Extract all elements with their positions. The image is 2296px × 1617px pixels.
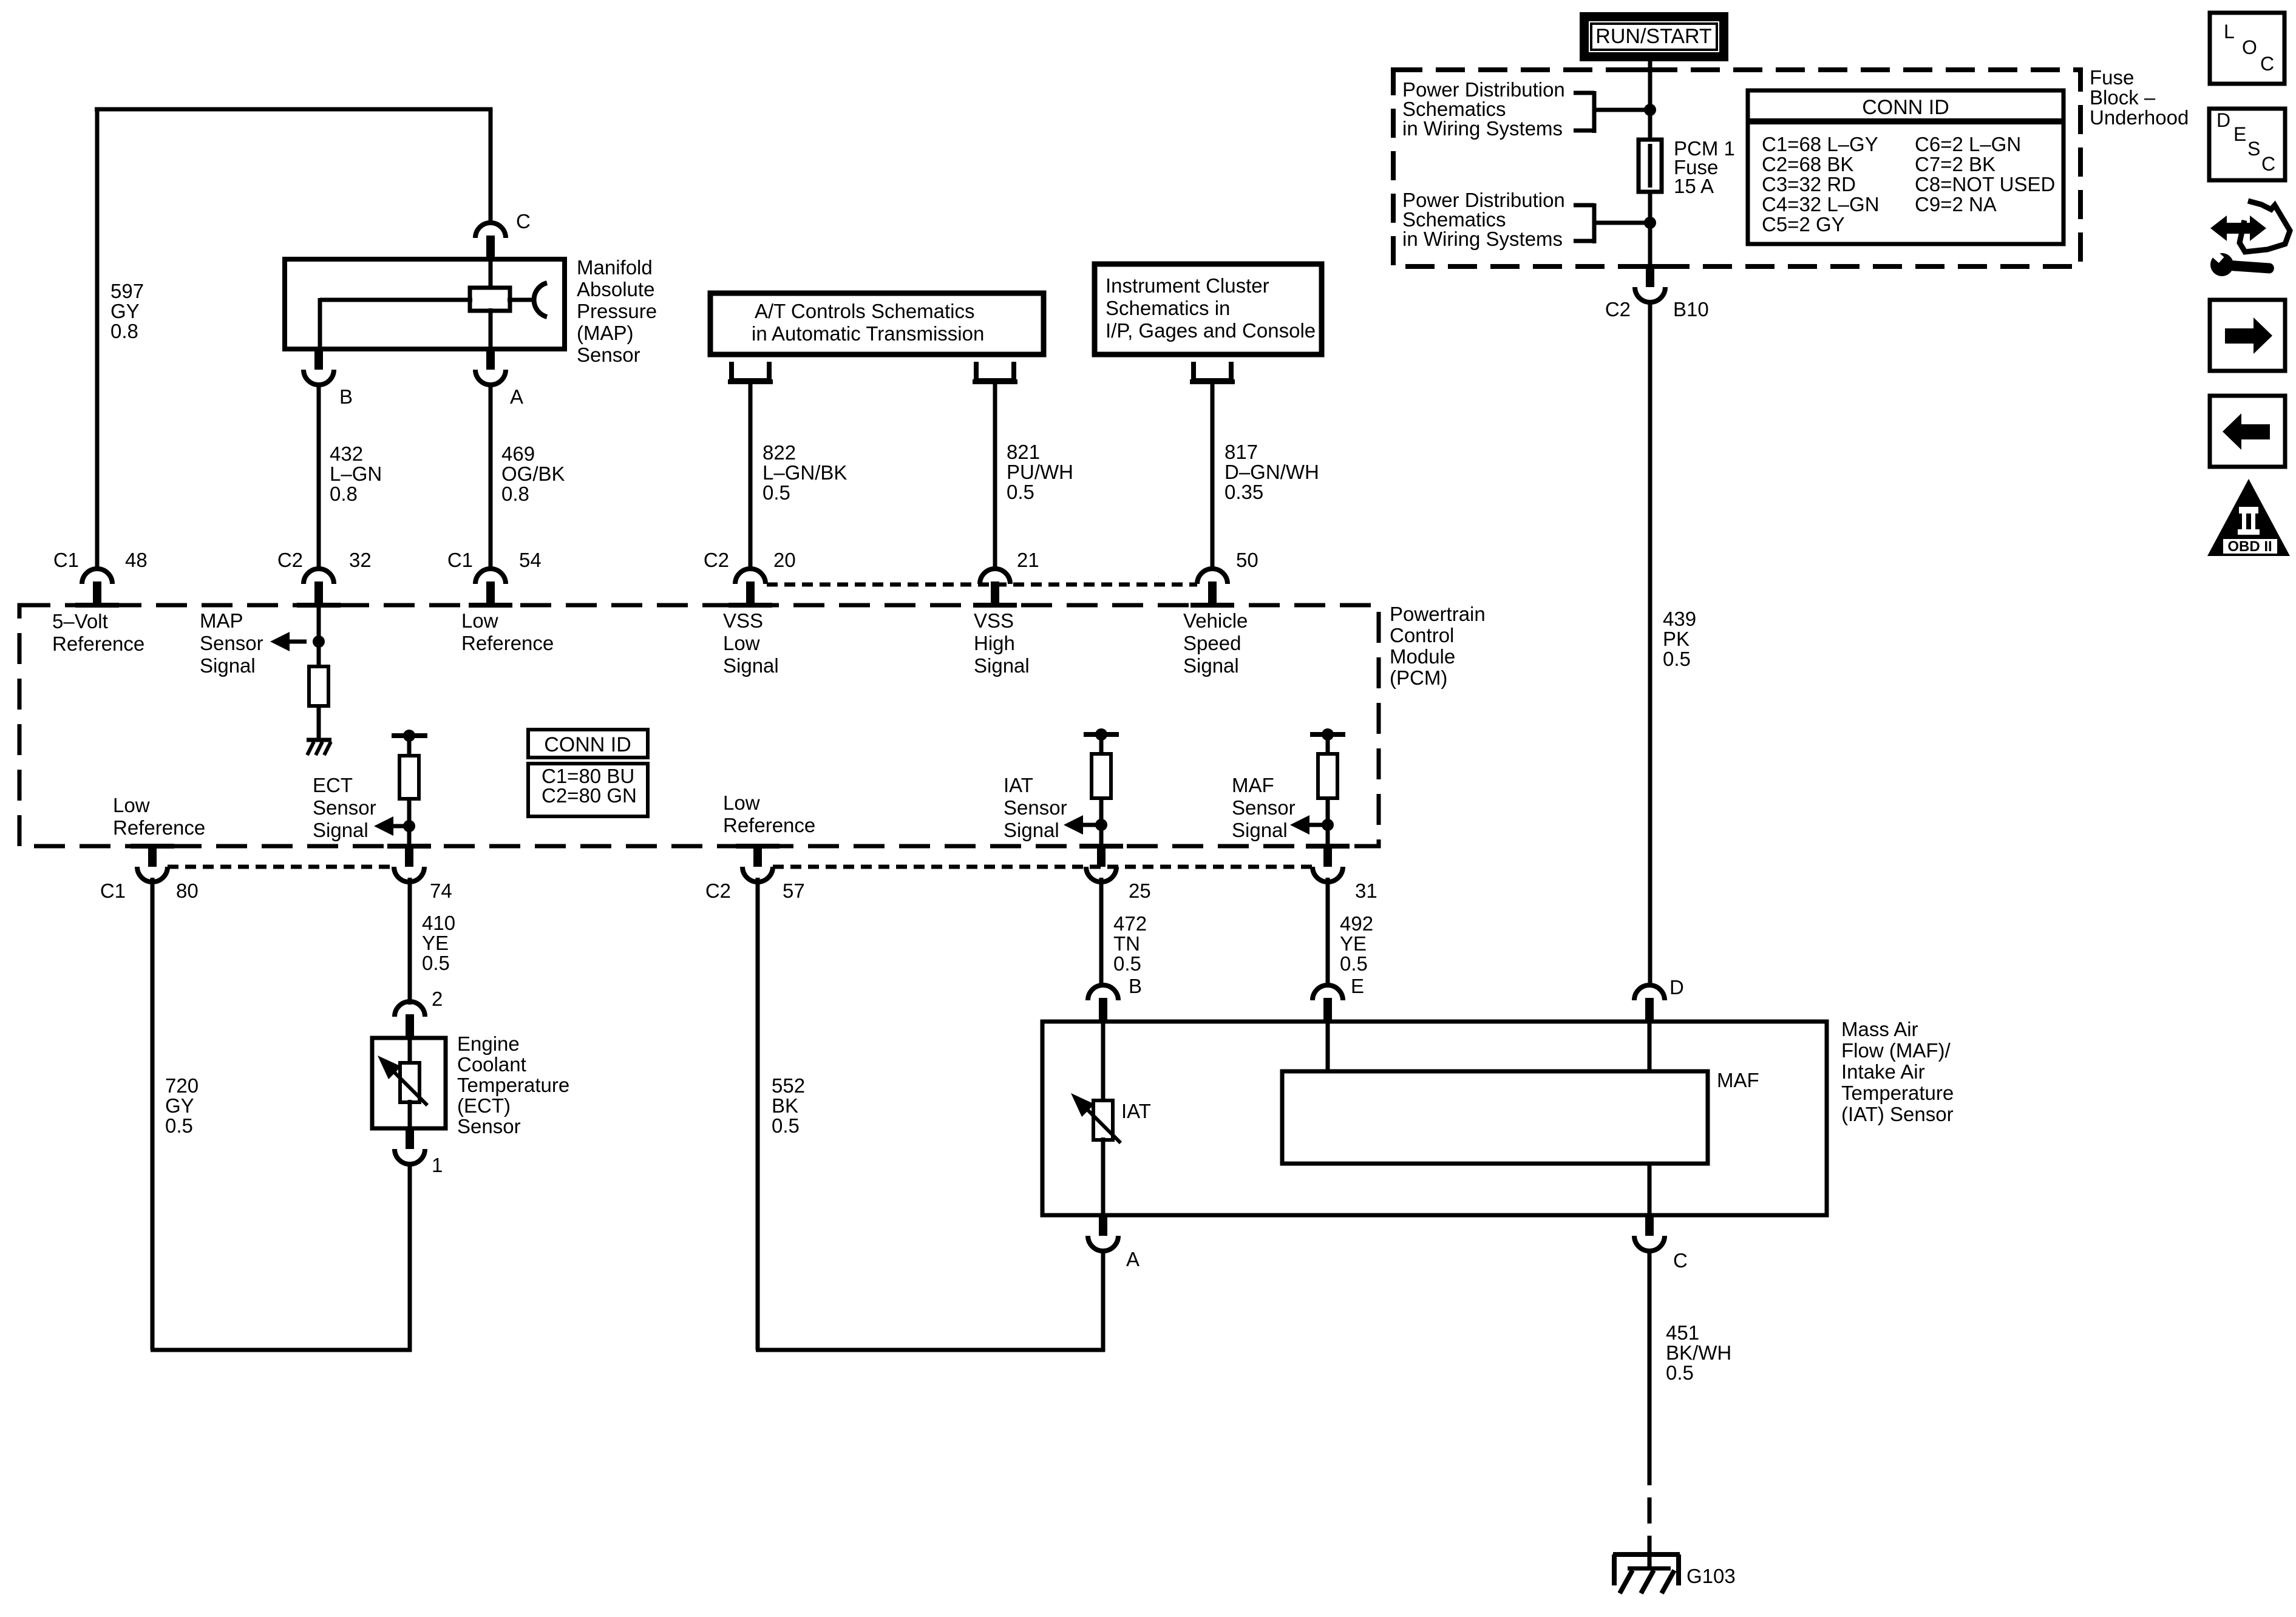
wire 492 YE <box>1326 878 1330 986</box>
svg-text:IAT: IAT <box>1121 1100 1151 1122</box>
wire 439 PK <box>1648 300 1652 987</box>
svg-text:VSS: VSS <box>974 609 1014 632</box>
wire to MAP pin C <box>489 107 493 225</box>
svg-text:0.5: 0.5 <box>1340 952 1368 975</box>
wire 472 TN <box>1099 878 1104 986</box>
solid dash at PCM bottom border pin 74 <box>387 844 431 849</box>
OBD II triangle icon <box>2207 479 2290 556</box>
svg-text:B: B <box>1129 975 1142 997</box>
solid dash at PCM top border pin 54 <box>469 603 512 608</box>
svg-text:Signal: Signal <box>1232 819 1288 841</box>
svg-text:Speed: Speed <box>1183 632 1241 654</box>
svg-text:Fuse: Fuse <box>2090 66 2134 89</box>
MAP internal wire to diaphragm <box>508 298 532 302</box>
connector pin C of MAP sensor <box>475 223 506 238</box>
svg-text:MAF: MAF <box>1232 774 1274 796</box>
svg-text:0.5: 0.5 <box>1113 952 1141 975</box>
connector pin A of MAP sensor <box>486 348 495 370</box>
svg-text:Sensor: Sensor <box>313 796 376 819</box>
connector pin A of MAF/IAT <box>1099 1214 1107 1236</box>
ECT internal wire top <box>408 1038 412 1065</box>
MAP internal wire C to resistor <box>489 259 493 290</box>
svg-text:Vehicle: Vehicle <box>1183 609 1248 632</box>
svg-text:D: D <box>1669 976 1684 998</box>
wire 597 GY top horizontal <box>95 107 492 112</box>
svg-text:0.35: 0.35 <box>1224 481 1263 503</box>
connector pin 57 at PCM bottom <box>753 845 762 867</box>
off-page connector under A/T box (822) <box>732 362 769 381</box>
svg-text:25: 25 <box>1129 880 1151 902</box>
wire resistor to chassis ground <box>317 704 321 738</box>
ground G103 symbol <box>1613 1552 1680 1557</box>
dotted line C2 pins 20-50 <box>767 583 1197 587</box>
Instrument Cluster box <box>1095 264 1322 354</box>
connector pin 74 at PCM bottom <box>405 845 413 867</box>
solid dash at PCM top border pin 21 <box>973 603 1017 608</box>
svg-text:451: 451 <box>1666 1321 1699 1344</box>
connector pin C of MAF/IAT <box>1645 1214 1654 1236</box>
MAF pullup T-bar <box>1310 732 1345 737</box>
svg-text:Block –: Block – <box>2090 86 2156 109</box>
svg-text:O: O <box>2242 36 2257 58</box>
wire 451 BK/WH solid <box>1648 1250 1652 1459</box>
svg-text:597: 597 <box>110 280 144 302</box>
svg-text:CONN ID: CONN ID <box>544 733 631 756</box>
svg-text:1: 1 <box>432 1154 443 1176</box>
MAP pulldown resistor <box>309 666 328 706</box>
svg-text:21: 21 <box>1017 549 1039 571</box>
MAP internal wire horizontal to B <box>320 298 472 302</box>
junction dot 1 <box>1644 104 1656 116</box>
svg-text:Temperature: Temperature <box>1841 1082 1954 1104</box>
solid dash at wire crossing fuse block bottom <box>1628 264 1672 269</box>
svg-text:Powertrain: Powertrain <box>1390 603 1486 625</box>
A/T Controls Schematics box <box>710 293 1044 354</box>
svg-text:Low: Low <box>113 794 150 816</box>
PCM dashed box <box>19 605 1379 846</box>
svg-text:Signal: Signal <box>1004 819 1059 841</box>
svg-text:0.5: 0.5 <box>772 1114 800 1137</box>
svg-text:Sensor: Sensor <box>1232 796 1296 819</box>
svg-text:C: C <box>1673 1249 1688 1272</box>
wire E inside box <box>1326 1022 1330 1071</box>
solid dash at PCM top border pin 48 <box>75 603 119 608</box>
solid dash at PCM top border pin 50 <box>1190 603 1234 608</box>
dotted line C1 pins 80-74 <box>168 865 394 869</box>
svg-text:Signal: Signal <box>200 654 256 677</box>
svg-text:C3=32 RD: C3=32 RD <box>1762 173 1856 195</box>
right arrow <box>2225 328 2258 344</box>
dotted line C2 pins 57-31 <box>773 865 1313 869</box>
svg-text:822: 822 <box>763 441 796 464</box>
connector pin 2 of ECT <box>395 1002 425 1017</box>
svg-text:Reference: Reference <box>461 632 554 654</box>
ECT internal wire bottom <box>408 1100 412 1128</box>
svg-text:5–Volt: 5–Volt <box>52 610 108 632</box>
solid dash at PCM top border pin 20 <box>729 603 772 608</box>
svg-text:YE: YE <box>422 932 449 954</box>
MAP sensor box <box>285 259 565 349</box>
svg-text:CONN ID: CONN ID <box>1862 96 1949 119</box>
svg-text:TN: TN <box>1113 932 1140 955</box>
MAF pullup resistor <box>1318 754 1337 798</box>
svg-text:0.5: 0.5 <box>1666 1361 1694 1384</box>
wire C inside box <box>1648 1164 1652 1215</box>
svg-text:0.5: 0.5 <box>422 952 450 974</box>
svg-text:472: 472 <box>1113 912 1147 935</box>
svg-text:C: C <box>516 210 531 232</box>
svg-text:54: 54 <box>519 549 542 571</box>
svg-text:C1: C1 <box>53 549 79 571</box>
svg-text:C2: C2 <box>704 549 729 571</box>
left arrow <box>2237 424 2270 439</box>
PCM CONN ID table <box>528 730 648 758</box>
chassis ground inside PCM <box>307 738 331 742</box>
svg-text:C8=NOT USED: C8=NOT USED <box>1915 173 2055 195</box>
connector pin D of MAF/IAT <box>1634 985 1665 1000</box>
svg-text:C1: C1 <box>100 880 126 902</box>
svg-text:A/T Controls Schematics: A/T Controls Schematics <box>755 300 975 322</box>
MAP internal wire resistor to A <box>489 308 493 349</box>
svg-text:A: A <box>510 385 523 408</box>
ECT sensor box <box>372 1038 446 1128</box>
svg-text:Sensor: Sensor <box>200 632 263 654</box>
svg-text:50: 50 <box>1236 549 1258 571</box>
svg-text:Flow (MAF)/: Flow (MAF)/ <box>1841 1039 1951 1062</box>
connector pin 20 at PCM top <box>735 569 766 584</box>
IAT T-bar junction dot <box>1095 728 1107 741</box>
svg-text:S: S <box>2247 138 2260 160</box>
MAP internal resistor <box>470 288 510 311</box>
svg-text:High: High <box>974 632 1015 654</box>
svg-text:C: C <box>2261 153 2275 175</box>
svg-text:C: C <box>2260 53 2274 75</box>
connector pin C2 B10 at fuse block <box>1646 265 1654 287</box>
connector pin 54 at PCM top <box>475 569 506 584</box>
svg-text:C2: C2 <box>277 549 303 571</box>
svg-text:(ECT): (ECT) <box>457 1094 511 1117</box>
fuse block CONN ID table <box>1748 90 2063 244</box>
svg-text:492: 492 <box>1340 912 1373 935</box>
wire 432 L-GN <box>317 385 321 569</box>
svg-text:552: 552 <box>772 1074 805 1097</box>
connector pin 48 at PCM top <box>82 569 112 584</box>
MAF signal junction dot <box>1322 819 1334 831</box>
solid dash at PCM bottom border pin 57 <box>736 844 779 849</box>
left arrow icon box <box>2210 396 2285 467</box>
svg-text:ECT: ECT <box>313 774 353 796</box>
svg-text:Sensor: Sensor <box>577 344 640 366</box>
IAT T-bar stub <box>1099 734 1104 756</box>
wire 552 BK loop <box>756 878 760 1350</box>
svg-text:I/P, Gages and Console: I/P, Gages and Console <box>1106 319 1316 342</box>
svg-text:MAF: MAF <box>1717 1069 1759 1091</box>
svg-text:GY: GY <box>110 300 140 322</box>
svg-text:in Automatic Transmission: in Automatic Transmission <box>752 322 984 345</box>
svg-text:Signal: Signal <box>313 819 369 841</box>
svg-text:Coolant: Coolant <box>457 1053 526 1076</box>
IAT thermistor resistor <box>1093 1100 1113 1140</box>
svg-text:Low: Low <box>723 792 760 814</box>
svg-text:(MAP): (MAP) <box>577 322 634 344</box>
ECT pullup T-bar <box>392 733 427 738</box>
ECT T-bar stub <box>407 736 412 758</box>
LOC icon box <box>2210 13 2284 84</box>
svg-text:Intake Air: Intake Air <box>1841 1060 1925 1083</box>
svg-text:0.5: 0.5 <box>1007 481 1034 503</box>
svg-text:(PCM): (PCM) <box>1390 666 1447 689</box>
svg-text:20: 20 <box>773 549 796 571</box>
svg-text:31: 31 <box>1355 880 1377 902</box>
svg-text:469: 469 <box>501 442 535 465</box>
svg-text:0.8: 0.8 <box>501 483 529 505</box>
svg-text:L–GN: L–GN <box>330 463 382 485</box>
MAP diaphragm arc <box>534 283 547 317</box>
svg-text:G103: G103 <box>1686 1565 1736 1587</box>
svg-text:PU/WH: PU/WH <box>1007 461 1073 483</box>
ECT thermistor arrowhead <box>378 1056 401 1079</box>
svg-text:Schematics in: Schematics in <box>1106 297 1230 319</box>
svg-text:Underhood: Underhood <box>2090 106 2189 129</box>
svg-text:Pressure: Pressure <box>577 300 657 322</box>
MAP signal wire inside PCM <box>317 605 321 668</box>
wire 410 YE <box>408 878 412 1005</box>
svg-text:L: L <box>2224 21 2235 42</box>
connector pin E of MAF/IAT <box>1313 985 1343 1000</box>
svg-text:Signal: Signal <box>974 654 1030 677</box>
MAP internal elbow down to B <box>318 298 322 349</box>
two-way arrow / adjust icon <box>2219 223 2258 234</box>
svg-text:C5=2 GY: C5=2 GY <box>1762 213 1845 236</box>
svg-text:0.8: 0.8 <box>330 483 358 505</box>
svg-text:D: D <box>2216 109 2230 131</box>
ECT signal arrow <box>374 816 393 836</box>
RUN/START box <box>1580 12 1728 61</box>
wire 597 GY left vertical <box>95 107 100 569</box>
connector pin 1 of ECT <box>406 1127 414 1149</box>
MAP signal junction dot <box>313 636 325 648</box>
svg-text:A: A <box>1126 1248 1140 1270</box>
svg-text:C1: C1 <box>447 549 473 571</box>
svg-text:MAP: MAP <box>200 609 243 632</box>
svg-text:E: E <box>2233 123 2246 145</box>
connector pin 50 at PCM top <box>1197 569 1228 584</box>
svg-text:VSS: VSS <box>723 609 763 632</box>
wire 720 GY loop <box>151 878 155 1350</box>
svg-text:Module: Module <box>1390 645 1455 668</box>
svg-text:C2=68 BK: C2=68 BK <box>1762 153 1853 175</box>
svg-text:Signal: Signal <box>1183 654 1239 677</box>
svg-text:Low: Low <box>461 609 498 632</box>
svg-text:0.5: 0.5 <box>1663 648 1691 670</box>
svg-text:Sensor: Sensor <box>457 1115 521 1137</box>
svg-text:Manifold: Manifold <box>577 256 653 279</box>
IAT pullup resistor <box>1092 754 1111 798</box>
wire 451 dashed to ground <box>1648 1459 1652 1554</box>
svg-text:0.8: 0.8 <box>110 320 138 342</box>
IAT signal junction dot <box>1095 819 1107 831</box>
svg-text:C7=2 BK: C7=2 BK <box>1915 153 1995 175</box>
svg-text:57: 57 <box>783 880 805 902</box>
svg-text:C1=68 L–GY: C1=68 L–GY <box>1762 133 1878 155</box>
svg-text:2: 2 <box>432 988 443 1010</box>
svg-text:48: 48 <box>125 549 148 571</box>
MAF/IAT sensor box <box>1042 1022 1827 1215</box>
fuse block underhood dashed box <box>1393 70 2080 266</box>
svg-text:in Wiring Systems: in Wiring Systems <box>1402 228 1563 250</box>
off-page connector under A/T box (821) <box>976 362 1014 381</box>
svg-text:821: 821 <box>1007 441 1040 463</box>
fuse PCM 1 15A <box>1639 140 1662 192</box>
svg-text:Sensor: Sensor <box>1004 796 1067 819</box>
IAT pullup T-bar <box>1084 732 1119 737</box>
ECT thermistor resistor <box>400 1063 419 1102</box>
svg-text:C2: C2 <box>1605 298 1631 320</box>
svg-text:B: B <box>339 385 353 408</box>
svg-text:Absolute: Absolute <box>577 278 654 300</box>
svg-text:720: 720 <box>165 1074 199 1097</box>
MAF T-bar junction dot <box>1322 728 1334 741</box>
wire 821 PU/WH <box>993 382 997 569</box>
svg-text:C2=80 GN: C2=80 GN <box>542 784 637 807</box>
wire 822 L-GN/BK <box>749 382 753 569</box>
svg-text:C2: C2 <box>705 880 731 902</box>
svg-text:C6=2 L–GN: C6=2 L–GN <box>1915 133 2021 155</box>
svg-text:IAT: IAT <box>1004 774 1033 796</box>
svg-text:Reference: Reference <box>113 816 205 839</box>
ECT T-bar junction dot <box>403 730 415 742</box>
IAT signal wire <box>1099 796 1104 846</box>
svg-text:L–GN/BK: L–GN/BK <box>763 461 847 484</box>
svg-text:BK/WH: BK/WH <box>1666 1341 1731 1364</box>
wire RUN/START to fuse <box>1648 61 1652 268</box>
ECT pullup resistor <box>399 756 419 799</box>
svg-text:Low: Low <box>723 632 760 654</box>
connector pin 32 at PCM top <box>304 569 334 584</box>
svg-text:439: 439 <box>1663 608 1696 630</box>
bracket 2 <box>1574 203 1594 208</box>
MAF signal wire <box>1326 796 1330 846</box>
svg-text:(IAT) Sensor: (IAT) Sensor <box>1841 1103 1954 1125</box>
solid dash at PCM top border pin 32 <box>297 603 341 608</box>
svg-text:GY: GY <box>165 1094 194 1117</box>
svg-text:74: 74 <box>430 880 452 902</box>
svg-text:0.5: 0.5 <box>165 1114 193 1137</box>
IAT thermistor diagonal <box>1087 1109 1121 1143</box>
svg-text:Signal: Signal <box>723 654 779 677</box>
svg-text:BK: BK <box>772 1094 798 1117</box>
wire 817 D-GN/WH <box>1211 382 1215 569</box>
IAT signal arrow <box>1064 815 1083 835</box>
connector pin B of MAP sensor <box>314 348 323 370</box>
junction dot 2 <box>1644 217 1656 229</box>
svg-text:C9=2 NA: C9=2 NA <box>1915 193 1997 215</box>
svg-text:C4=32 L–GN: C4=32 L–GN <box>1762 193 1880 215</box>
svg-text:15 A: 15 A <box>1674 175 1714 197</box>
svg-text:Reference: Reference <box>723 814 815 836</box>
solid dash at PCM bottom border pin 31 <box>1306 844 1350 849</box>
svg-text:OG/BK: OG/BK <box>501 463 565 485</box>
svg-text:Temperature: Temperature <box>457 1074 569 1096</box>
svg-text:D–GN/WH: D–GN/WH <box>1224 461 1319 483</box>
svg-text:RUN/START: RUN/START <box>1595 25 1711 48</box>
svg-text:Control: Control <box>1390 624 1454 646</box>
off-page connector under Instrument box (817) <box>1194 362 1231 381</box>
svg-text:Mass Air: Mass Air <box>1841 1018 1918 1040</box>
svg-text:410: 410 <box>422 912 455 934</box>
svg-text:Engine: Engine <box>457 1032 520 1055</box>
svg-text:E: E <box>1351 975 1364 997</box>
IAT wire inside box top <box>1101 1022 1106 1103</box>
ECT signal wire <box>407 797 412 846</box>
wire 469 OG/BK <box>489 385 493 569</box>
svg-text:80: 80 <box>176 880 199 902</box>
MAP signal arrow <box>270 632 290 651</box>
connector pin 80 at PCM bottom <box>148 845 157 867</box>
svg-text:Reference: Reference <box>52 632 144 655</box>
right arrow icon box <box>2210 300 2285 371</box>
solid dash at PCM bottom border pin 25 <box>1079 844 1123 849</box>
svg-text:32: 32 <box>349 549 372 571</box>
MAF inner box <box>1282 1071 1708 1164</box>
wire D inside box <box>1648 1022 1652 1071</box>
MAF signal arrow <box>1290 815 1309 835</box>
svg-text:817: 817 <box>1224 441 1258 463</box>
ECT signal junction dot <box>403 820 415 832</box>
svg-text:in Wiring Systems: in Wiring Systems <box>1402 117 1563 140</box>
bracket 1 <box>1574 91 1594 95</box>
svg-text:B10: B10 <box>1673 298 1709 320</box>
IAT wire inside box bottom <box>1101 1137 1106 1215</box>
IAT thermistor arrowhead <box>1071 1093 1095 1117</box>
svg-text:YE: YE <box>1340 932 1367 955</box>
connector pin 25 at PCM bottom <box>1097 845 1106 867</box>
MAF T-bar stub <box>1326 734 1330 756</box>
svg-text:Instrument Cluster: Instrument Cluster <box>1106 274 1269 297</box>
svg-text:0.5: 0.5 <box>763 481 790 504</box>
connector pin 31 at PCM bottom <box>1323 845 1332 867</box>
svg-text:432: 432 <box>330 442 363 465</box>
svg-text:OBD II: OBD II <box>2227 538 2272 555</box>
solid dash at PCM bottom border pin 80 <box>131 844 174 849</box>
connector pin B of MAF/IAT <box>1088 985 1118 1000</box>
DESC icon box <box>2209 109 2285 180</box>
svg-text:PK: PK <box>1663 628 1690 650</box>
ECT thermistor diagonal <box>393 1071 427 1105</box>
connector pin 21 at PCM top <box>980 569 1010 584</box>
solid dash at wire crossing fuse block top <box>1628 67 1672 72</box>
